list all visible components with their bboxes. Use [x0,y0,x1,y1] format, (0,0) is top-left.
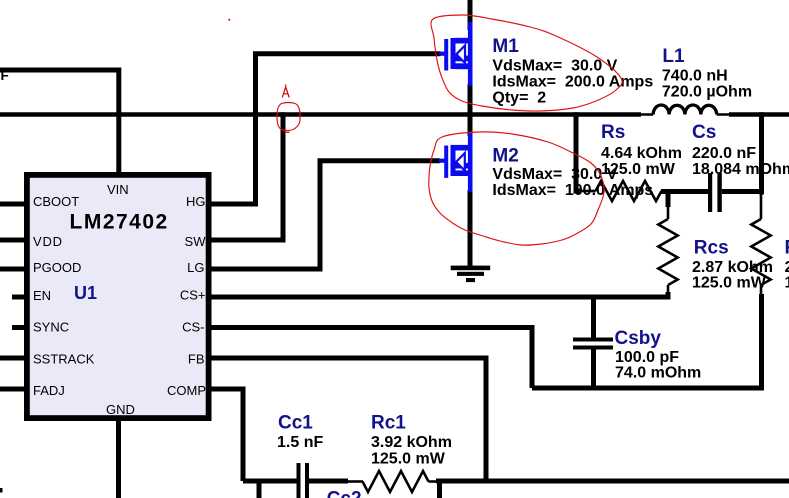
wire M1 source to SW rail [468,84,473,117]
svg-text:FADJ: FADJ [33,383,65,398]
IC pin labels [33,182,206,417]
resistor Rs [596,181,662,201]
wire GND stem [116,419,121,498]
svg-text:Qty= 2: Qty= 2 [492,90,546,107]
inductor L1 [640,113,730,116]
wire bottom rail right [429,480,439,483]
wire Csby bottom stem [591,350,596,389]
red annotation circle at node A [277,103,300,131]
svg-text:LM27402: LM27402 [70,210,169,233]
red annotation letter A [282,85,289,98]
red annotation circle hook [284,130,290,133]
svg-text:R: R [785,238,789,259]
svg-text:SSTRACK: SSTRACK [33,352,95,367]
svg-text:M2: M2 [492,146,518,167]
wire PGOOD stub [0,267,26,272]
capacitor Cs [708,173,722,212]
wire LG net [206,161,440,269]
red annotation ellipse around M1 [431,15,622,111]
wire main SW rail [0,112,641,117]
svg-text:2.8: 2.8 [785,259,789,276]
wire SSTRACK stub [0,356,26,361]
svg-text:125.0 mW: 125.0 mW [601,161,676,178]
wire EN stub [12,295,26,300]
wire fragment bottom-left corner [0,488,3,493]
wire Rcs top [666,191,671,207]
svg-text:PGOOD: PGOOD [33,260,81,275]
wire Cc1 to Rc1 [309,479,348,484]
wire Cc2 stub [257,481,262,498]
svg-text:3.92 kOhm: 3.92 kOhm [371,434,452,451]
wire Vout vertical [759,112,764,194]
svg-text:CS-: CS- [182,320,204,335]
svg-text:M1: M1 [492,36,519,57]
svg-text:CBOOT: CBOOT [33,194,79,209]
svg-text:220.0 nF: 220.0 nF [692,145,756,162]
svg-text:Csby: Csby [615,328,662,349]
svg-text:VIN: VIN [107,182,129,197]
wire M2 source to ground [468,190,473,268]
svg-text:CS+: CS+ [180,288,206,303]
svg-text:Cs: Cs [692,122,716,143]
svg-text:740.0 nH: 740.0 nH [662,68,728,85]
svg-text:SYNC: SYNC [33,320,69,335]
wire Cs to Vout node [722,189,764,194]
svg-text:Rs: Rs [601,122,625,143]
wire HG net [206,54,441,204]
svg-text:Cc1: Cc1 [278,413,313,434]
wire bottom sense rail [532,386,764,391]
svg-text:1.5 nF: 1.5 nF [277,434,323,451]
wire Rs branch vertical [576,112,582,191]
wire SYNC stub [12,325,26,330]
svg-text:Rcs: Rcs [694,238,729,259]
wire CS+ net [206,295,671,300]
svg-text:74.0 mOhm: 74.0 mOhm [615,364,701,381]
wire M1 drain from top [468,0,473,30]
svg-text:12: 12 [785,275,789,292]
svg-text:VdsMax= 30.0 V: VdsMax= 30.0 V [492,58,617,75]
svg-text:IdsMax= 100.0 Amps: IdsMax= 100.0 Amps [492,182,653,199]
resistor Rc1 [363,471,429,492]
wire SW rail right of inductor [729,112,789,117]
wire CS- net [206,328,532,389]
svg-text:FB: FB [188,352,205,367]
svg-text:Cc2: Cc2 [327,489,362,498]
IC U1 LM27402 body [27,175,209,418]
red annotation ellipse around M2 [429,132,604,245]
svg-text:F: F [1,68,9,83]
wire Rs to Cs [661,189,708,194]
svg-text:125.0 mW: 125.0 mW [692,275,767,292]
wire FADJ stub [0,387,26,392]
svg-text:HG: HG [186,194,206,209]
svg-text:IdsMax= 200.0 Amps: IdsMax= 200.0 Amps [492,74,653,91]
wire VDD stub [0,238,26,243]
svg-text:U1: U1 [74,283,97,303]
capacitor Cc1 [297,463,310,498]
wire COMP net [206,389,243,481]
svg-text:VdsMax= 30.0 V: VdsMax= 30.0 V [492,166,617,183]
svg-text:COMP: COMP [167,383,206,398]
svg-text:GND: GND [106,402,135,417]
svg-text:18.084 mOhm: 18.084 mOhm [692,161,789,178]
wire COMP bottom rail left [243,479,297,484]
transistor M2 [439,132,473,192]
transistor M1 [440,22,473,86]
wire SW pin net [206,112,283,240]
svg-text:EN: EN [33,288,51,303]
wire M2 drain from SW rail [468,112,473,136]
wire CBOOT stub [0,202,26,207]
svg-text:Rc1: Rc1 [371,413,406,434]
svg-text:125.0 mW: 125.0 mW [371,451,446,468]
resistor Resr (right, cut) [751,219,770,285]
svg-text:4.64 kOhm: 4.64 kOhm [601,145,682,162]
capacitor Csby [573,338,613,350]
wire Resr bottom [760,285,763,296]
wire Csby top stem [591,297,596,338]
svg-text:VDD: VDD [33,234,63,249]
svg-text:L1: L1 [662,46,685,67]
wire FB net [206,358,486,481]
wire Rcs bottom [667,285,670,294]
ground [451,266,491,283]
svg-text:LG: LG [187,260,204,275]
resistor Rcs [658,219,677,285]
wire VIN input top-left [0,70,119,172]
svg-text:720.0 µOhm: 720.0 µOhm [662,84,752,101]
wire stub down right of Rc1 [437,481,442,498]
svg-text:2.87 kOhm: 2.87 kOhm [692,259,773,276]
svg-text:SW: SW [185,234,207,249]
red dot [228,19,230,21]
